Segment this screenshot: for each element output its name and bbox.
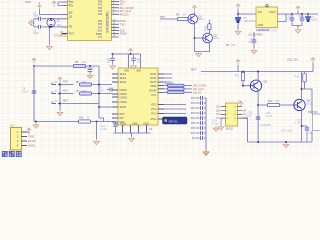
power VCC motor (236, 60, 240, 72)
ground led rail red (203, 150, 209, 155)
capacitor C5 (290, 14, 295, 25)
R5 label (75, 61, 87, 64)
svg-text:SCL: SCL (216, 106, 221, 109)
junction crystal gnd (49, 26, 51, 28)
Q1 label (199, 15, 205, 21)
U4 blue designator below (226, 128, 234, 131)
C2 value label (33, 29, 39, 35)
svg-text:U1: U1 (60, 30, 64, 34)
svg-text:PSEN: PSEN (120, 33, 127, 36)
svg-text:COM4: COM4 (120, 101, 128, 104)
U3 pin VIN label (258, 11, 262, 14)
capacitor C6 (300, 14, 305, 25)
Q2 label (214, 34, 220, 40)
R13 label (295, 76, 300, 79)
P2 red label (308, 111, 317, 114)
capacitor led P03 (196, 111, 207, 115)
wire crystal gnd (49, 27, 51, 45)
junction Q3 collector (257, 71, 259, 73)
C7 value label (311, 17, 318, 22)
ic U4 body (226, 103, 238, 126)
svg-text:GND: GND (120, 122, 126, 125)
power VCC above U2 (128, 49, 132, 54)
U2 left pins (112, 74, 118, 122)
designator U3 red (248, 33, 263, 37)
wire cap common (33, 19, 35, 27)
svg-text:MOT: MOT (191, 68, 197, 72)
svg-text:VCC: VCC (25, 0, 32, 4)
U2 interior bottom labels (120, 122, 149, 125)
junction U2 rail b (112, 53, 114, 55)
svg-text:P01: P01 (191, 102, 196, 105)
switch S2 (52, 92, 60, 94)
Y1 value (57, 24, 62, 27)
Q4 label (307, 99, 313, 106)
net label ECHO at P1 (28, 139, 36, 143)
resistor R3 vertical (208, 24, 211, 30)
key row1 label (63, 81, 68, 84)
svg-text:GND: GND (143, 122, 149, 125)
resistor R12 (268, 103, 280, 106)
svg-text:P02: P02 (191, 107, 196, 110)
svg-text:Q3: Q3 (264, 80, 268, 84)
crystal Y1 (47, 18, 55, 26)
regulator U3 body (256, 5, 278, 28)
ground below C24 (251, 49, 257, 54)
svg-text:P20: P20 (160, 15, 165, 19)
net label ALE (120, 30, 125, 33)
svg-text:P00: P00 (191, 97, 196, 100)
U4 left pins (221, 107, 226, 118)
svg-text:C21 0.1uF: C21 0.1uF (281, 130, 293, 133)
svg-text:10K: 10K (275, 100, 280, 103)
svg-text:C8 0.1uF: C8 0.1uF (84, 67, 94, 70)
capacitor led P01 (196, 101, 207, 105)
ground near column (213, 126, 219, 131)
R12 label (268, 100, 280, 103)
net label GND U4 (243, 117, 249, 120)
wire to R12 (258, 104, 267, 106)
resistor R14 on bottom wire (79, 120, 91, 123)
node VCC label top-left (25, 0, 32, 4)
U3 pin GND label (258, 24, 264, 27)
C9 value label (22, 88, 29, 94)
wire Q3 collector (257, 72, 259, 83)
mcu U1 body (68, 0, 112, 41)
C1 value label (33, 12, 39, 18)
wire corner to U2 (98, 66, 100, 118)
svg-text:GND: GND (258, 24, 264, 27)
svg-text:0.1uF: 0.1uF (266, 115, 273, 118)
net label TRIG (120, 3, 124, 7)
svg-text:104: 104 (231, 44, 236, 47)
wire XTAL2 (42, 26, 68, 28)
svg-text:10K: 10K (82, 61, 87, 64)
svg-text:P3.2: P3.2 (151, 104, 157, 107)
svg-text:R11: R11 (235, 75, 240, 78)
svg-text:ISP DL: ISP DL (169, 119, 179, 123)
svg-text:P36: P36 (98, 24, 103, 26)
net label A0 U4 (243, 109, 247, 112)
svg-text:RST: RST (120, 113, 125, 116)
wire key row1 (60, 84, 74, 86)
S2 gray label (54, 91, 58, 93)
U4 gnd wire left (220, 118, 222, 125)
capacitor led P02 (196, 106, 207, 110)
ground below C12 (131, 64, 137, 69)
svg-text:STC89C52: STC89C52 (54, 34, 67, 38)
R2 labels (176, 13, 186, 16)
ground below C4 (235, 30, 241, 35)
S3 gray label (54, 101, 58, 103)
node P04 label (191, 117, 196, 120)
U1 right pin numbers (113, 0, 116, 37)
wire bottom right rail (248, 131, 313, 142)
wire Q3 emitter rail (257, 89, 259, 142)
junction left rail (35, 121, 37, 123)
wire caps common (292, 25, 302, 28)
S1 gray label (54, 82, 58, 84)
wire rows to resistors (164, 86, 192, 93)
svg-text:10uF: 10uF (137, 61, 143, 64)
capacitor C7 electrolytic output (305, 14, 311, 22)
capacitor led P05 (196, 121, 207, 125)
svg-text:INT: INT (120, 117, 125, 120)
net label HC_ECHO (120, 9, 132, 13)
svg-text:P37: P37 (98, 27, 103, 29)
C20 value label (246, 112, 272, 127)
node P20 label (160, 15, 165, 19)
wire base Q2 (195, 37, 203, 39)
designator P1 (11, 124, 15, 128)
svg-text:RST: RST (63, 81, 68, 84)
wire XTAL1 (42, 18, 68, 20)
svg-text:PSEN: PSEN (96, 34, 103, 36)
ground bottom right (283, 143, 289, 148)
text sensor caption (2, 151, 21, 156)
svg-text:10uF: 10uF (299, 16, 305, 18)
svg-text:U3_LM7805: U3_LM7805 (248, 33, 263, 37)
junction vout2 (301, 13, 303, 15)
U1 left pin stubs (62, 2, 68, 34)
ground below C13 (94, 140, 100, 145)
svg-text:TRIG: TRIG (28, 135, 34, 139)
junction XTAL2 (50, 26, 52, 28)
svg-text:P35: P35 (98, 21, 103, 23)
svg-text:30pF: 30pF (33, 32, 39, 35)
svg-text:100uF/16V: 100uF/16V (244, 20, 256, 23)
switch S3 (52, 102, 60, 104)
svg-text:0.1uF/25V: 0.1uF/25V (260, 124, 271, 127)
net label HC_TRIG right (193, 84, 207, 88)
svg-text:SEG1: SEG1 (120, 73, 127, 76)
net label P13 U4 (217, 117, 222, 120)
connector P1 body (11, 128, 22, 151)
svg-text:SEG2: SEG2 (120, 77, 127, 80)
power VCC right top (311, 58, 315, 72)
svg-text:P32: P32 (98, 8, 103, 10)
U1 right pins group A (112, 1, 120, 14)
power VCC above Q1 (192, 6, 196, 11)
netframe download port (163, 117, 188, 124)
capacitor C9 on left rail (32, 91, 37, 93)
svg-text:ECHO: ECHO (149, 90, 156, 93)
svg-text:104: 104 (107, 61, 112, 64)
wire key rail (59, 83, 61, 111)
C12 label (137, 58, 143, 64)
svg-text:WP: WP (243, 109, 247, 112)
junction Q1 emitter (194, 37, 196, 39)
transistor Q4 (294, 99, 305, 110)
junction XTAL1 (50, 18, 52, 20)
net label HC_OUT right (193, 90, 202, 94)
svg-text:12M: 12M (57, 24, 62, 27)
junction y66 (89, 65, 91, 67)
net label P12 U4 (217, 113, 222, 116)
junction mid-left (33, 65, 35, 67)
net label RST red left (61, 32, 67, 36)
R6 labels (76, 82, 87, 84)
wire bottom rail U2 (114, 133, 151, 137)
U2 right row wires P1 (164, 74, 172, 82)
capacitor led P07 (196, 131, 207, 135)
capacitor led P06 (196, 126, 207, 130)
power VCC mid-left (32, 58, 36, 63)
resistor R13 vertical (302, 72, 307, 90)
svg-text:GND1: GND1 (28, 144, 36, 148)
Y1 label (57, 19, 61, 23)
ic U2 body (118, 68, 158, 125)
svg-text:STC89C52RC: STC89C52RC (106, 11, 110, 33)
svg-text:100uF: 100uF (311, 19, 318, 21)
U2 designator blue (149, 127, 153, 131)
svg-text:AD_IO: AD_IO (193, 90, 202, 94)
resistor R10 (168, 91, 185, 94)
svg-text:GND: GND (132, 122, 138, 125)
P1 pins (22, 132, 28, 146)
ground output caps (295, 28, 301, 33)
junction vout1 (291, 13, 293, 15)
U3 pin VOUT label (269, 11, 276, 14)
svg-text:R14: R14 (79, 117, 84, 120)
power VCC regulator input (236, 4, 240, 9)
wire motor rail (201, 71, 313, 73)
U1 left pin numbers (68, 1, 71, 34)
net label TRIG at P1 (28, 135, 34, 139)
net label P10 (120, 0, 126, 4)
svg-text:P12: P12 (217, 113, 222, 116)
svg-text:COM1: COM1 (120, 89, 128, 92)
wire led rail (205, 98, 207, 150)
U4 pin numbers (227, 107, 237, 120)
junction key1 (59, 84, 61, 86)
node P07 label (191, 132, 196, 135)
junction row 107 (98, 106, 100, 108)
svg-text:RST: RST (70, 34, 75, 36)
resistor R11 vertical (241, 72, 250, 86)
svg-text:P31: P31 (98, 5, 103, 7)
svg-text:U2: U2 (149, 127, 153, 131)
key row2 label (63, 90, 68, 93)
svg-text:0.1uF: 0.1uF (246, 114, 253, 117)
wire R12 to Q4 (280, 104, 294, 106)
C4 value label (244, 17, 256, 23)
svg-text:R13: R13 (295, 76, 300, 79)
U2 bottom pins (123, 125, 147, 133)
junction bottom right (285, 141, 287, 143)
resistor R2 1K (178, 17, 190, 20)
power arrow top-left corner (37, 2, 41, 7)
svg-text:MOTOR: MOTOR (308, 111, 317, 114)
designator U1 red (54, 30, 67, 37)
svg-text:XTL: XTL (98, 37, 103, 39)
capacitor C12 (131, 54, 136, 64)
capacitor C10 (107, 88, 113, 92)
C10 value label (98, 87, 105, 93)
R14 labels (79, 117, 90, 120)
R3 labels (204, 26, 208, 32)
power VCC at P1 (27, 128, 31, 133)
wire vin (238, 10, 256, 15)
svg-text:P3.4: P3.4 (151, 113, 157, 116)
ground U4 left (218, 125, 224, 130)
C13 value label (101, 125, 108, 131)
U2 right pins (158, 74, 164, 119)
net label A1 U4 (243, 113, 247, 116)
resistor R6 (80, 83, 113, 86)
ground key rail (57, 111, 63, 116)
U3 footprint band (256, 28, 278, 32)
svg-text:ADC0: ADC0 (120, 106, 127, 109)
junction key row2 (98, 93, 100, 95)
junction Q4 collector (301, 88, 303, 90)
svg-text:VOUT: VOUT (269, 11, 276, 14)
wire lower right rows (164, 105, 186, 114)
U2 interior top labels (124, 70, 141, 73)
svg-text:VIN: VIN (258, 11, 262, 14)
svg-text:TRIG: TRIG (151, 85, 157, 88)
capacitor C24 gnd pin (252, 32, 257, 49)
junction Q3 emitter (257, 104, 259, 106)
node motor label (191, 68, 197, 72)
transistor Q3 (250, 80, 261, 91)
svg-text:1K: 1K (204, 29, 207, 32)
power VCC at U1 top-left (52, 1, 56, 6)
transistor Q1 9012 (188, 14, 198, 24)
svg-text:VDD: VDD (136, 70, 141, 73)
svg-text:10u: 10u (309, 132, 314, 135)
svg-text:SET: SET (63, 100, 68, 103)
svg-text:SDA: SDA (216, 109, 221, 112)
ground below C8 (87, 74, 93, 79)
junction vin (237, 13, 239, 15)
wire EA pin (40, 9, 68, 15)
grid pattern decorative (0, 0, 320, 157)
svg-text:P07: P07 (191, 132, 196, 135)
wire Q4 emitter (301, 109, 303, 142)
power VCC key rail (58, 77, 62, 82)
U2 interior right labels (149, 73, 157, 121)
wire U4 gnd drop (242, 118, 248, 142)
svg-text:0.1uF: 0.1uF (98, 89, 105, 92)
wire left vertical rail (33, 66, 35, 122)
svg-text:P3.1: P3.1 (151, 94, 157, 97)
capacitor C11 (110, 54, 115, 64)
svg-text:1K: 1K (87, 117, 90, 120)
svg-text:P3.3: P3.3 (151, 108, 157, 111)
wire Q2 collector up (208, 30, 210, 35)
junction bottom wire (96, 121, 98, 123)
C6 value label (299, 16, 305, 18)
capacitor led P00 (196, 96, 207, 100)
svg-text:P06: P06 (191, 127, 196, 130)
power VCC U4 pin (239, 102, 243, 107)
wire right vertical (305, 89, 313, 114)
U4 right pins (238, 107, 243, 118)
svg-text:R12: R12 (268, 100, 273, 103)
Q3 label (264, 80, 268, 84)
svg-text:ALE: ALE (98, 30, 103, 33)
ground below U2 (129, 137, 135, 142)
wire Q1 collector to VCC (194, 12, 196, 16)
svg-text:0.1uF: 0.1uF (213, 122, 220, 125)
capacitor C8 drop (88, 66, 93, 74)
net label RXD (120, 19, 127, 23)
ground left rail (33, 123, 39, 128)
net label PSEN (120, 33, 127, 36)
wire C13 drop (96, 122, 98, 140)
net label GND at P1 (28, 144, 36, 148)
svg-text:24C02: 24C02 (226, 128, 234, 131)
net label HC_TRIG (120, 6, 135, 10)
svg-text:COM3: COM3 (120, 97, 128, 100)
C5 value label (287, 16, 292, 21)
node P00 label (191, 97, 196, 100)
key row3 label (63, 100, 68, 103)
node P05 label (191, 122, 196, 125)
C19 value label (213, 120, 220, 126)
wire stub row 107 (99, 106, 112, 108)
node P02 label (191, 107, 196, 110)
svg-text:9012: 9012 (199, 18, 205, 21)
net label SDA U4 (216, 109, 221, 112)
ground below Q2 (196, 52, 202, 57)
svg-text:P30: P30 (98, 1, 103, 3)
svg-text:0.1uF: 0.1uF (22, 90, 29, 93)
resistor R5 on wire (74, 64, 86, 67)
capacitor C1 30pF (34, 17, 41, 21)
svg-text:XTAL: XTAL (150, 118, 157, 121)
C11 label (106, 58, 111, 64)
wire Q4 collector (301, 72, 303, 102)
capacitor C2 30pF (34, 25, 41, 29)
svg-text:DAT1: DAT1 (150, 73, 157, 76)
C8 value label (84, 67, 94, 70)
svg-text:SEG3: SEG3 (120, 81, 127, 84)
svg-text:TXD: TXD (120, 22, 127, 26)
net label AD_IO (120, 12, 130, 16)
capacitor C4 electrolytic (235, 14, 241, 30)
P1 pin numbers (17, 132, 19, 148)
R12 value label2 (266, 112, 273, 118)
junction key2 (59, 93, 61, 95)
capacitor led P2 (196, 136, 207, 140)
wire vout rail (278, 14, 319, 22)
svg-text:P1: P1 (11, 124, 15, 128)
node Sensor label (165, 82, 175, 86)
svg-text:Y1: Y1 (57, 19, 61, 23)
svg-text:P33: P33 (98, 11, 103, 13)
